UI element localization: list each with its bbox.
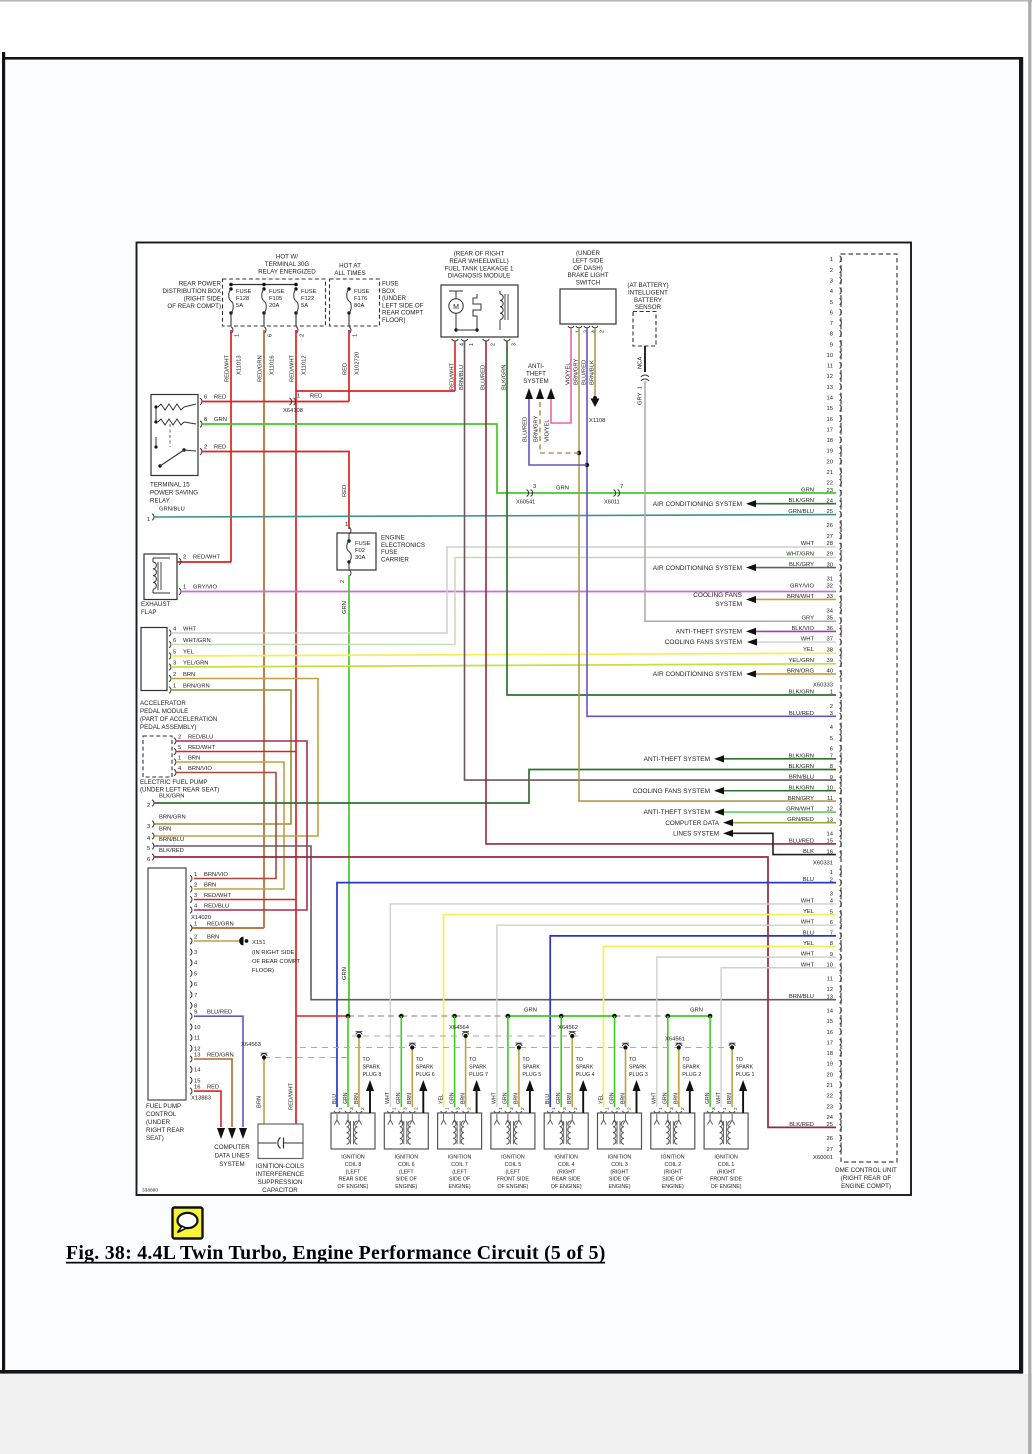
wire RED/WHT branch to ignition coil bus — [296, 1015, 348, 1017]
wire BLU/RED switch pin4 to DME pin 3 X60331 — [587, 328, 836, 716]
ignition coil 8 box — [331, 1113, 375, 1149]
svg-text:14: 14 — [827, 396, 834, 402]
svg-text:(LEFT: (LEFT — [506, 1169, 521, 1175]
svg-text:COMPUTER DATA: COMPUTER DATA — [665, 820, 719, 827]
svg-text:X14020: X14020 — [191, 915, 211, 921]
wire GRN drop to ignition coil 4 — [560, 1016, 562, 1107]
ignition coil 5 box — [491, 1113, 535, 1149]
svg-text:DIAGNOSIS MODULE: DIAGNOSIS MODULE — [448, 273, 511, 280]
svg-text:BLK/GRN: BLK/GRN — [789, 764, 814, 770]
fuse stub wires to box bottom — [230, 313, 232, 326]
DME connector X60001 pin 6 WHT — [840, 922, 842, 928]
electric fuel pump pin 1 BRN — [174, 759, 176, 765]
svg-text:OF ENGINE): OF ENGINE) — [551, 1184, 582, 1190]
svg-text:2: 2 — [733, 1107, 739, 1110]
svg-text:1: 1 — [722, 1107, 728, 1110]
fuse box 2 (dashed) — [330, 279, 380, 326]
pedal module pin 5 YEL — [169, 653, 171, 659]
spark plug connector symbol coil 5 — [516, 1044, 522, 1046]
DME connector X60331 pin 1 BLK/GRN — [840, 692, 842, 698]
svg-text:BLK/RED: BLK/RED — [159, 848, 184, 854]
svg-text:HOT W/: HOT W/ — [276, 254, 299, 261]
svg-text:9: 9 — [194, 1010, 197, 1016]
svg-text:WHT: WHT — [492, 1091, 498, 1104]
svg-text:FUSE: FUSE — [236, 289, 252, 295]
svg-text:BLU/RED: BLU/RED — [207, 1010, 232, 1016]
svg-text:25: 25 — [827, 1122, 833, 1128]
svg-text:OF ENGINE): OF ENGINE) — [497, 1184, 528, 1190]
svg-text:ALL TIMES: ALL TIMES — [334, 270, 365, 277]
svg-text:10: 10 — [194, 1025, 200, 1031]
svg-text:BLK/RED: BLK/RED — [789, 1122, 814, 1128]
svg-text:ANTI-THEFT SYSTEM: ANTI-THEFT SYSTEM — [676, 629, 742, 636]
wire RED fuel pump control pin16 to computer data lines — [194, 1091, 221, 1127]
svg-text:PLUG 6: PLUG 6 — [416, 1072, 435, 1078]
DME connector X60333 pin 29 WHT/GRN — [840, 554, 842, 560]
svg-text:POWER SAVING: POWER SAVING — [150, 490, 198, 497]
DME connector X60333 pin 9 — [840, 341, 842, 347]
wire VIO/YEL switch pin1 to anti-theft system — [551, 328, 571, 423]
area below page box — [0, 1374, 1032, 1454]
svg-text:1: 1 — [830, 257, 833, 263]
svg-text:WHT: WHT — [385, 1091, 391, 1104]
svg-text:34: 34 — [827, 608, 834, 614]
svg-text:26: 26 — [827, 1136, 833, 1142]
dashed connector row y=1047.5 — [300, 1047, 733, 1049]
svg-text:22: 22 — [827, 1094, 833, 1100]
fuel pump control pin 4 RED/BLU (X14020) — [190, 907, 192, 913]
svg-text:20: 20 — [827, 1072, 833, 1078]
svg-text:3: 3 — [711, 1107, 717, 1110]
svg-text:RED: RED — [310, 394, 322, 400]
DME connector X60333 pin 37 WHT — [840, 639, 842, 645]
svg-text:RED/GRN: RED/GRN — [207, 922, 234, 928]
DME connector X60333 pin 36 BLK/VIO — [840, 628, 842, 634]
DME connector X60331 pin 12 GRN/WHT — [840, 809, 842, 815]
ignition coil 7 internal leads — [441, 1114, 446, 1125]
wire RED from fuse F176 down to junction y=401 — [348, 330, 350, 402]
DME connector X60001 pin 2 BLU — [840, 879, 842, 885]
svg-text:AIR CONDITIONING SYSTEM: AIR CONDITIONING SYSTEM — [653, 565, 742, 572]
svg-text:ELECTRONICS: ELECTRONICS — [381, 542, 425, 549]
spark plug connector symbol coil 2 — [676, 1044, 682, 1046]
fuel pump control pin 9 BLU/RED (X13883) — [190, 1013, 192, 1019]
connector X151 symbol — [239, 937, 243, 946]
electric fuel pump pin 2 RED/BLU — [174, 738, 176, 744]
svg-text:AIR CONDITIONING SYSTEM: AIR CONDITIONING SYSTEM — [653, 671, 742, 678]
svg-text:BLU/RED: BLU/RED — [789, 711, 814, 717]
wire RED/GRN fuel pump control pin13 to computer data lines — [194, 1059, 232, 1127]
svg-text:3: 3 — [533, 484, 536, 490]
svg-text:BRN: BRN — [354, 1093, 360, 1104]
svg-text:(AT BATTERY): (AT BATTERY) — [627, 282, 668, 289]
svg-text:RED: RED — [207, 1085, 219, 1091]
svg-text:TERMINAL 30G: TERMINAL 30G — [265, 261, 310, 268]
svg-text:GRN: GRN — [801, 488, 814, 494]
wire BLU/RED fuel pump control pin9 to computer data lines — [194, 1016, 243, 1127]
svg-text:BRN/VIO: BRN/VIO — [188, 766, 212, 772]
svg-text:5: 5 — [173, 650, 176, 656]
svg-text:1: 1 — [830, 870, 833, 876]
svg-text:THEFT: THEFT — [526, 371, 546, 378]
svg-text:3: 3 — [830, 891, 833, 897]
svg-text:(RIGHT SIDE: (RIGHT SIDE — [184, 296, 221, 303]
module pin 4 RED/WHT — [452, 339, 458, 341]
wire WHT pedal pin4 to DME pin 28 — [171, 547, 836, 633]
brake light switch pin 3 BRN/GRY — [576, 326, 582, 328]
svg-text:VIO/YEL: VIO/YEL — [545, 419, 551, 442]
svg-text:16: 16 — [827, 1030, 833, 1036]
pin 6 BLK/RED — [152, 854, 154, 860]
ignition coil 6 box — [384, 1113, 428, 1149]
svg-text:2: 2 — [830, 268, 833, 274]
svg-text:(RIGHT: (RIGHT — [557, 1169, 576, 1175]
svg-text:22: 22 — [827, 481, 833, 487]
DME connector X60333 pin 10 — [840, 352, 842, 358]
svg-text:WHT: WHT — [652, 1091, 658, 1104]
accelerator pedal module box — [141, 628, 167, 691]
svg-text:5: 5 — [830, 736, 833, 742]
fuel pump control pin 3 (empty) (X13883) — [190, 949, 192, 955]
wire BRN to ignition coil 3 — [625, 1050, 627, 1108]
computer data lines arrows (down) — [217, 1128, 225, 1139]
svg-text:2: 2 — [194, 935, 197, 941]
wire NCA from battery sensor — [644, 346, 646, 372]
svg-text:REAR SIDE: REAR SIDE — [552, 1177, 581, 1183]
wire GRN drop to ignition coil 5 — [507, 1016, 509, 1107]
brake light switch pin 4 BLU/RED — [584, 326, 590, 328]
svg-text:PEDAL MODULE: PEDAL MODULE — [140, 708, 188, 715]
svg-text:16: 16 — [827, 417, 833, 423]
svg-text:BRN: BRN — [204, 883, 216, 889]
svg-text:FUSE: FUSE — [382, 281, 399, 288]
DME connector X60001 pin 21 — [840, 1082, 842, 1088]
bus junction dot coil 8 — [346, 1014, 351, 1019]
svg-text:TO: TO — [363, 1057, 370, 1063]
svg-text:2: 2 — [340, 580, 346, 583]
wire BLK/GRN to DME pin 8 X60331 — [154, 770, 836, 804]
wire BRN/VIO pump pin4 to X14020 pin 1 — [176, 773, 276, 879]
svg-text:BRN/GRY: BRN/GRY — [788, 796, 814, 802]
svg-text:12: 12 — [827, 987, 833, 993]
svg-text:CONTROL: CONTROL — [146, 1111, 177, 1118]
svg-text:ENGINE): ENGINE) — [662, 1184, 684, 1190]
anti-theft arrow BRN/GRY — [536, 388, 544, 399]
wire BLU DME X60001 pin 2 to ignition coil — [337, 883, 836, 1107]
svg-text:BLU/RED: BLU/RED — [789, 838, 814, 844]
svg-text:X11013: X11013 — [237, 355, 243, 375]
DME connector X60333 pin 17 — [840, 426, 842, 432]
svg-text:BRN/GRN: BRN/GRN — [183, 684, 210, 690]
svg-text:FUEL TANK LEAKAGE 1: FUEL TANK LEAKAGE 1 — [444, 265, 514, 272]
exhaust flap pin 1 — [179, 588, 181, 594]
DME connector X60001 pin 27 — [840, 1145, 842, 1151]
wire YEL pedal pin5 to DME pin 38 — [171, 653, 836, 656]
wire GRN drop to ignition coil 2 — [667, 1016, 669, 1107]
DME connector X60331 pin 8 BLK/GRN — [840, 766, 842, 772]
svg-text:27: 27 — [827, 1147, 833, 1153]
svg-text:(LEFT: (LEFT — [346, 1169, 361, 1175]
bus junction dot coil 7 — [452, 1014, 457, 1019]
DME connector X60331 pin 2 — [840, 702, 842, 708]
svg-text:GRN: GRN — [556, 486, 569, 492]
svg-text:X60333: X60333 — [813, 683, 833, 689]
DME connector X60333 pin 13 — [840, 383, 842, 389]
svg-text:1: 1 — [338, 1107, 344, 1110]
svg-text:X64561: X64561 — [665, 1037, 685, 1043]
wire GRN drop to ignition coil 1 — [709, 1016, 711, 1107]
terminal 15 power saving relay box — [151, 395, 198, 476]
svg-text:RED/GRN: RED/GRN — [207, 1053, 234, 1059]
brake light switch pin 1 VIO/YEL — [568, 326, 574, 328]
svg-text:19: 19 — [827, 1062, 833, 1068]
pedal module pin 2 BRN — [169, 675, 171, 681]
svg-text:YEL/GRN: YEL/GRN — [183, 661, 208, 667]
wire WHT DME X60001 pin 10 to ignition coil — [721, 968, 836, 1107]
svg-text:FUSE: FUSE — [381, 549, 398, 556]
svg-text:SPARK: SPARK — [416, 1065, 434, 1071]
svg-text:COMPUTER: COMPUTER — [214, 1144, 250, 1151]
ignition coil 3 transformer windings — [613, 1121, 616, 1144]
svg-text:2: 2 — [194, 883, 197, 889]
svg-text:RED: RED — [342, 485, 348, 497]
ignition coil 2 internal leads — [654, 1114, 659, 1125]
dashed wire BRN/GRY branch to anti-theft system — [540, 399, 579, 453]
ignition coil 2 box — [651, 1113, 695, 1149]
svg-text:GRY: GRY — [638, 392, 644, 405]
fuse F122 5A — [294, 287, 297, 290]
svg-text:GRN: GRN — [690, 1008, 703, 1014]
svg-text:5A: 5A — [301, 303, 308, 309]
svg-text:GRN: GRN — [342, 967, 348, 980]
wire GRY/VIO exhaust flap to DME pin 32 — [181, 591, 836, 593]
carrier pin 2 bottom — [349, 570, 351, 576]
DME connector X60331 pin 9 BRN/BLU — [840, 777, 842, 783]
svg-text:10: 10 — [827, 353, 833, 359]
svg-text:3: 3 — [147, 824, 150, 830]
wire RED/WHT fuel pump control pin3 joins RED/WHT vertical — [194, 899, 296, 901]
svg-text:X102720: X102720 — [355, 352, 361, 375]
svg-text:GRN: GRN — [343, 1092, 349, 1104]
svg-text:BOX: BOX — [382, 288, 395, 295]
svg-text:(LEFT: (LEFT — [452, 1169, 467, 1175]
svg-text:COIL 5: COIL 5 — [505, 1162, 522, 1168]
svg-text:X60541: X60541 — [516, 500, 535, 506]
wire RED node joining F122, F176 and fuel-tank module RED/WHT — [296, 390, 455, 392]
spark plug connector symbol coil 6 — [409, 1044, 415, 1046]
svg-text:14: 14 — [194, 1068, 201, 1074]
svg-text:RELAY: RELAY — [150, 498, 170, 505]
svg-text:7: 7 — [620, 484, 623, 490]
DME connector X60001 pin 23 — [840, 1103, 842, 1109]
relay pin 6 — [200, 398, 202, 404]
svg-text:REAR POWER: REAR POWER — [179, 281, 222, 288]
svg-text:2: 2 — [183, 555, 186, 561]
svg-text:RED/WHT: RED/WHT — [204, 893, 232, 899]
bus junction dot coil 1 — [708, 1014, 713, 1019]
svg-text:16: 16 — [194, 1085, 200, 1091]
wire BRN pedal pin2 to connector pin 4 — [154, 679, 318, 837]
svg-text:27: 27 — [827, 534, 833, 540]
svg-text:RED/BLU: RED/BLU — [188, 735, 213, 741]
svg-text:7: 7 — [830, 321, 833, 327]
DME connector X60333 pin 32 GRY/VIO — [840, 586, 842, 592]
DME connector X60001 pin 25 BLK/RED — [840, 1124, 842, 1130]
svg-text:15: 15 — [827, 839, 833, 845]
svg-text:ANTI-THEFT SYSTEM: ANTI-THEFT SYSTEM — [644, 809, 710, 816]
fuel pump control pin 6 (empty) (X13883) — [190, 981, 192, 987]
svg-text:7: 7 — [194, 993, 197, 999]
svg-text:BRN/BLU: BRN/BLU — [159, 837, 184, 843]
svg-text:X60001: X60001 — [813, 1155, 833, 1161]
fuel pump control pin 16 RED (X13883) — [190, 1088, 192, 1094]
page box top border — [2, 57, 1023, 60]
svg-text:26: 26 — [827, 523, 833, 529]
relay switch contact — [158, 464, 161, 467]
svg-text:PLUG 2: PLUG 2 — [682, 1072, 701, 1078]
DME connector X60001 pin 24 — [840, 1114, 842, 1120]
wire BRN to ignition coil 5 — [518, 1050, 520, 1108]
svg-text:TO: TO — [736, 1057, 743, 1063]
svg-text:SPARK: SPARK — [522, 1065, 540, 1071]
svg-text:IGNITION: IGNITION — [395, 1155, 419, 1161]
svg-text:SYSTEM: SYSTEM — [219, 1161, 244, 1168]
svg-text:1: 1 — [551, 1107, 557, 1110]
svg-text:YEL/GRN: YEL/GRN — [789, 658, 814, 664]
svg-text:1: 1 — [194, 872, 197, 878]
bus junction dot coil 6 — [399, 1014, 404, 1019]
fuse F105 20A — [262, 287, 265, 290]
DME connector X60333 pin 12 — [840, 373, 842, 379]
DME connector X60001 pin 5 YEL — [840, 911, 842, 917]
pedal module pin 6 WHT/GRN — [169, 641, 171, 647]
ignition coil 4 transformer windings — [560, 1121, 563, 1144]
svg-text:GRN: GRN — [609, 1092, 615, 1104]
svg-text:3: 3 — [194, 893, 197, 899]
svg-text:15: 15 — [194, 1078, 200, 1084]
wire YEL DME X60001 pin 5 to ignition coil — [444, 915, 836, 1107]
svg-text:RED/WHT: RED/WHT — [193, 555, 221, 561]
svg-text:PLUG 7: PLUG 7 — [469, 1072, 488, 1078]
bus junction dot coil 5 — [506, 1014, 511, 1019]
ignition coil 2 transformer windings — [666, 1121, 669, 1144]
svg-text:GRN/BLU: GRN/BLU — [788, 509, 814, 515]
svg-text:ENGINE): ENGINE) — [449, 1184, 471, 1190]
DME connector X60001 pin 13 BRN/BLU — [840, 996, 842, 1002]
svg-text:(UNDER: (UNDER — [382, 295, 407, 302]
svg-text:24: 24 — [827, 1115, 834, 1121]
svg-text:(RIGHT: (RIGHT — [664, 1169, 683, 1175]
ignition coil 4 NCA wire to spark plug (arrow) — [582, 1091, 584, 1113]
DME connector X60333 pin 19 — [840, 447, 842, 453]
svg-text:2: 2 — [573, 1107, 579, 1110]
svg-text:SENSOR: SENSOR — [635, 304, 662, 311]
DME connector X60331 pin 11 BRN/GRY — [840, 798, 842, 804]
svg-text:1: 1 — [658, 1107, 664, 1110]
wire BRN to ignition coil 2 — [678, 1050, 680, 1108]
svg-text:1: 1 — [469, 343, 475, 346]
capacitor symbol — [258, 1142, 277, 1144]
ignition coil 3 box — [598, 1113, 642, 1149]
bus wire connecting fuse tops — [231, 284, 296, 286]
svg-text:6: 6 — [204, 395, 207, 401]
DME connector X60333 pin 31 — [840, 575, 842, 581]
svg-text:HOT AT: HOT AT — [339, 263, 361, 270]
svg-text:BRN: BRN — [674, 1093, 680, 1104]
svg-text:21: 21 — [827, 470, 833, 476]
connector X64563 symbol — [261, 1054, 267, 1056]
svg-text:13: 13 — [827, 994, 833, 1000]
svg-text:13: 13 — [194, 1053, 200, 1059]
wire WHT/GRN pedal pin6 to DME pin 29 — [171, 558, 836, 645]
svg-text:14: 14 — [827, 1009, 834, 1015]
wire BRN X64563 to suppression capacitor — [263, 1060, 265, 1125]
DME connector X60001 pin 11 — [840, 975, 842, 981]
svg-text:1: 1 — [178, 756, 181, 762]
ignition coil 1 internal leads — [708, 1114, 713, 1125]
carrier pin 1 top — [349, 527, 351, 533]
relay internal dashed actuator link — [169, 424, 171, 447]
page box bottom border — [0, 1370, 1023, 1374]
svg-text:FRONT SIDE: FRONT SIDE — [497, 1177, 529, 1183]
svg-text:M: M — [453, 304, 459, 311]
DME connector X60333 pin 33 BRN/WHT — [840, 596, 842, 602]
wire BRN/GRN pedal pin1 to connector pin 3 — [154, 690, 291, 824]
svg-text:3: 3 — [512, 343, 518, 346]
DME connector X60001 pin 17 — [840, 1039, 842, 1045]
svg-text:3: 3 — [402, 1107, 408, 1110]
svg-text:FUSE: FUSE — [355, 541, 371, 547]
spark plug connector symbol coil 3 — [622, 1044, 628, 1046]
svg-text:6: 6 — [830, 310, 833, 316]
svg-text:20A: 20A — [269, 303, 279, 309]
svg-text:IGNITION: IGNITION — [714, 1155, 738, 1161]
wire RED/WHT module pin4 to node y=391 — [454, 341, 456, 391]
wire RED/GRN from fuse F105 to fuel pump control pin 1 X14020 — [263, 330, 265, 928]
svg-text:RED/WHT: RED/WHT — [290, 354, 296, 382]
rear power distribution box (dashed) — [223, 279, 326, 326]
exhaust flap pin 2 — [179, 558, 181, 564]
ignition coil 3 internal leads — [601, 1114, 606, 1125]
relay internal resistor 1 — [158, 404, 184, 410]
fuel pump control pin 4 (empty) (X13883) — [190, 960, 192, 966]
svg-text:RIGHT REAR: RIGHT REAR — [146, 1127, 185, 1134]
wire RED/BLU pump pin2 to X14020 pin 4 — [176, 741, 307, 910]
ignition coil 7 transformer windings — [453, 1121, 456, 1144]
svg-text:21: 21 — [827, 1083, 833, 1089]
svg-text:SIDE OF: SIDE OF — [449, 1177, 471, 1183]
DME connector X60331 pin 7 BLK/GRN — [840, 756, 842, 762]
DME connector X60331 pin 5 — [840, 734, 842, 740]
svg-text:GRN: GRN — [705, 1092, 711, 1104]
svg-text:30A: 30A — [355, 555, 365, 561]
inline connector X60541 — [527, 490, 529, 497]
svg-text:WHT: WHT — [183, 627, 197, 633]
svg-text:ELECTRIC FUEL PUMP: ELECTRIC FUEL PUMP — [140, 779, 208, 786]
svg-text:39: 39 — [827, 658, 833, 664]
DME connector X60331 pin 16 BLK — [840, 851, 842, 857]
DME connector X60333 pin 14 — [840, 394, 842, 400]
wire break symbol — [641, 375, 649, 377]
DME connector X60001 pin 19 — [840, 1060, 842, 1066]
svg-text:5A: 5A — [236, 303, 243, 309]
wire GRN drop to ignition coil 8 — [347, 1016, 349, 1107]
svg-text:19: 19 — [827, 449, 833, 455]
svg-text:3: 3 — [194, 950, 197, 956]
spark plug connector symbol coil 8 — [356, 1032, 362, 1034]
svg-text:LINES SYSTEM: LINES SYSTEM — [673, 831, 719, 838]
svg-text:32: 32 — [827, 584, 833, 590]
